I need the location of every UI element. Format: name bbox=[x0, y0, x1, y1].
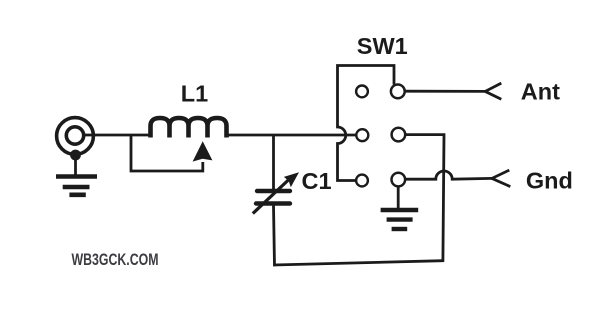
coax connector J1 inner ring bbox=[66, 127, 83, 144]
label Ant bbox=[521, 79, 560, 105]
label C1 bbox=[302, 168, 332, 194]
switch SW1 contact row3 left bbox=[356, 175, 368, 187]
svg-text:Ant: Ant bbox=[521, 79, 560, 105]
label SW1 bbox=[357, 33, 408, 59]
svg-text:SW1: SW1 bbox=[357, 33, 408, 59]
label Gnd bbox=[526, 168, 573, 194]
coax connector J1 outer ring bbox=[57, 118, 94, 155]
variable capacitor C1 plates bbox=[256, 191, 290, 204]
wire row3 right stem to ground bbox=[397, 186, 400, 209]
terminal Gnd arrow bracket bbox=[492, 170, 510, 187]
ground at coax connector bbox=[56, 177, 97, 195]
wire jumper row3-left to row1-right (top of switch, hops over main wire) bbox=[338, 66, 395, 181]
capacitor C1 arrow shaft bbox=[253, 178, 291, 214]
switch SW1 contact row2 left bbox=[356, 129, 368, 141]
inductor L1 bbox=[151, 118, 227, 138]
svg-text:C1: C1 bbox=[302, 168, 332, 194]
wire C1 bottom lead bbox=[274, 206, 275, 267]
capacitor C1 arrowhead bbox=[284, 172, 299, 187]
svg-text:WB3GCK.COM: WB3GCK.COM bbox=[72, 250, 159, 269]
label L1 bbox=[181, 80, 208, 106]
wire row1 right to Ant terminal bbox=[405, 90, 485, 93]
wire row3 right to Gnd terminal (hops over vertical wire) bbox=[405, 171, 492, 179]
node junction at C1 branch bbox=[272, 135, 275, 189]
tap arrowhead into L1 bbox=[193, 141, 213, 161]
wire row2 right down to bottom rail bbox=[405, 135, 444, 262]
terminal Ant arrow bracket bbox=[485, 83, 501, 99]
wire main line coax to inductor bbox=[84, 134, 151, 137]
watermark WB3GCK.COM bbox=[72, 250, 159, 269]
wire inductor to switch common bbox=[226, 134, 356, 137]
ground at switch bbox=[381, 210, 419, 229]
svg-text:Gnd: Gnd bbox=[526, 168, 573, 194]
wire connector stem to ground bbox=[74, 157, 77, 175]
svg-text:L1: L1 bbox=[181, 80, 208, 106]
coax connector shield dot bbox=[70, 150, 81, 161]
switch SW1 contact row3 right bbox=[392, 173, 406, 187]
switch SW1 contact row1 left bbox=[356, 86, 368, 98]
switch SW1 contact row2 right bbox=[392, 128, 406, 142]
wire tap branch down-right bbox=[131, 135, 203, 171]
wire bottom rail bbox=[273, 261, 443, 265]
switch SW1 contact row1 right bbox=[391, 85, 405, 99]
